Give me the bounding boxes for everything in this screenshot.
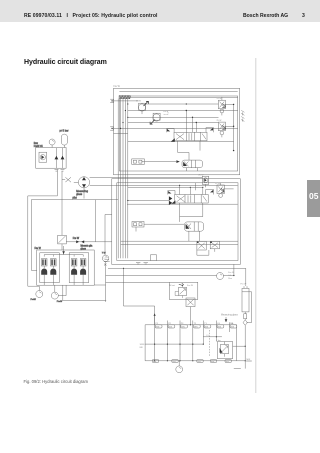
measuring rail left leg <box>140 325 146 361</box>
directional valve DV1 left cap <box>167 129 175 133</box>
svg-text:Rex: Rex <box>228 278 233 280</box>
svg-text:FreW 45: FreW 45 <box>34 145 44 148</box>
svg-text:pr 5 bar: pr 5 bar <box>60 129 69 133</box>
pilot marks DV2 <box>169 196 172 205</box>
port X2 <box>110 127 238 130</box>
test point T1b <box>203 321 211 345</box>
pilot valve PV1 <box>41 259 47 285</box>
pilot valve PV3 <box>71 259 77 285</box>
wire gallery riser to rails <box>123 268 155 325</box>
DV1 bottom stubs <box>178 141 200 153</box>
power unit enclosure <box>36 148 66 169</box>
svg-text:Messun gla: Messun gla <box>81 246 93 248</box>
pump M1 <box>39 152 47 162</box>
wire SV1 out <box>142 104 219 114</box>
svg-text:SWS: SWS <box>140 344 145 346</box>
pressure gauge G2 <box>31 286 43 301</box>
pilot supply arrow <box>62 246 65 255</box>
rail end tick <box>246 359 252 361</box>
relief valve RV4 <box>216 340 229 357</box>
wire M2 lower rail <box>90 184 112 186</box>
relief assembly enclosure <box>217 342 232 359</box>
wire tank return left <box>28 169 58 286</box>
shuttle valve SV1 <box>136 101 148 111</box>
supply arrow up <box>154 313 156 319</box>
svg-text:7 W: 7 W <box>102 253 107 255</box>
svg-text:M set: M set <box>170 284 176 287</box>
pressure gauge G4 <box>102 253 109 262</box>
filter bracket <box>247 292 252 323</box>
test point P1 <box>155 319 162 361</box>
svg-text:Fre W: Fre W <box>241 283 247 286</box>
wire aux drop <box>94 200 96 242</box>
filter assembly FL1 <box>241 283 250 312</box>
wire G4 down <box>105 262 107 302</box>
solenoid valve SO1 <box>197 241 209 255</box>
collector line B <box>106 275 234 277</box>
gallery line 2 <box>120 99 122 259</box>
gallery mid block2 <box>121 240 238 242</box>
gallery line 1 <box>117 99 119 259</box>
wire XQ drop <box>189 307 191 325</box>
svg-text:pilot: pilot <box>73 196 78 199</box>
wire TB1 to CV1 <box>144 160 179 163</box>
pressure gauge G5 <box>217 271 234 280</box>
wire pilot supply <box>31 196 118 199</box>
drop G5 <box>233 264 234 276</box>
cartridge valve CV2 <box>185 222 204 241</box>
test point LS <box>216 321 223 342</box>
test point T1a <box>193 321 200 361</box>
dashed drain link <box>208 330 210 356</box>
wire TB2 to CV2 <box>144 223 184 225</box>
pilot manifold <box>44 255 83 257</box>
DV1 top drops <box>186 110 197 133</box>
solenoid valve SO2 <box>210 241 219 251</box>
pilot housing right <box>69 253 89 283</box>
restrictor R1 <box>62 177 71 182</box>
svg-text:Fre W: Fre W <box>114 85 121 88</box>
gallery line 5 <box>127 99 129 259</box>
filter F1 <box>58 235 67 250</box>
svg-text:FreW: FreW <box>31 298 37 301</box>
pilot pump P2 <box>199 174 209 187</box>
svg-text:25 W: 25 W <box>136 101 141 103</box>
LS branch <box>203 335 222 337</box>
terminal box TB1 <box>132 159 145 164</box>
circulation pump M2 <box>78 177 89 188</box>
svg-text:Fre W: Fre W <box>228 271 234 274</box>
test point P3 <box>180 321 187 361</box>
test point P2 <box>167 321 174 361</box>
wire FL1 drop <box>234 325 245 368</box>
svg-text:Fre W: Fre W <box>187 284 194 287</box>
check valve V3 <box>243 319 247 326</box>
reducing valve RD1 <box>175 285 187 298</box>
tank T2 <box>136 262 148 264</box>
fitting bottom B4 <box>210 359 216 363</box>
directional valve DV2 body <box>127 195 238 205</box>
rail B block1 <box>128 116 219 118</box>
test point MA <box>229 322 236 332</box>
label measuring left <box>76 190 88 196</box>
drain pump M3 <box>176 361 183 373</box>
coupling C1 <box>66 237 112 243</box>
svg-text:glass: glass <box>76 193 83 196</box>
wire G4 riser <box>105 215 112 256</box>
directional valve DV2 right cap <box>206 190 214 195</box>
wire DV2 pilot left <box>127 200 169 201</box>
junction dots rails <box>154 324 246 361</box>
label messun <box>81 246 93 251</box>
wire M2 lower stub <box>74 182 84 198</box>
svg-text:Fre W: Fre W <box>35 247 42 250</box>
DV2 bottom stubs <box>180 203 203 222</box>
relief valve RV3 <box>215 183 234 198</box>
gallery line 4 <box>124 99 126 259</box>
page margin guide <box>255 58 257 393</box>
svg-text:MA: MA <box>230 322 234 325</box>
relief valve RVB <box>217 120 234 137</box>
pilot valve PV2 <box>50 259 56 285</box>
tank T1 <box>55 170 65 172</box>
svg-text:25 W: 25 W <box>217 98 222 100</box>
svg-text:25 W: 25 W <box>217 120 222 122</box>
drain mark D2 <box>241 117 244 122</box>
gallery end marks <box>104 257 110 265</box>
svg-text:MIN: MIN <box>247 359 251 361</box>
svg-text:FreW: FreW <box>57 300 63 303</box>
directional valve DV1 right cap <box>206 128 214 133</box>
rail C block1 <box>128 122 219 124</box>
check valve V1 <box>55 148 59 168</box>
label M set <box>170 283 194 287</box>
svg-text:a b: a b <box>104 257 108 259</box>
return arrow down <box>225 317 228 322</box>
control block 2 enclosure <box>112 179 241 265</box>
accumulator A1 <box>61 134 67 147</box>
fitting bottom B5 <box>225 359 231 363</box>
pilot control enclosure <box>35 247 95 285</box>
collector line A <box>108 267 246 269</box>
terminal box TB2 <box>132 222 144 232</box>
fitting bottom B2 <box>172 359 178 363</box>
drop line right block1 <box>233 104 234 152</box>
pressure gauge G3 <box>51 285 63 303</box>
relief valve RVA <box>217 97 234 116</box>
rail B block2 <box>128 186 203 188</box>
wire pilot return <box>63 285 106 300</box>
wire G3 link <box>58 285 66 295</box>
svg-text:Measuring glass: Measuring glass <box>221 314 239 317</box>
cartridge valve CV1 <box>182 160 203 171</box>
rail A block1 <box>128 110 238 112</box>
check valve V2 <box>61 148 65 168</box>
wire RV4 out <box>233 346 246 347</box>
port X1 <box>110 99 138 102</box>
control block 1 housing <box>119 96 237 171</box>
fitting bottom B3 <box>197 359 203 363</box>
measuring rail right leg <box>236 325 238 361</box>
svg-text:25 W: 25 W <box>199 174 204 176</box>
sensor SN1 <box>151 255 157 261</box>
coupling XQ <box>186 298 195 307</box>
drain mark D1 <box>241 110 244 115</box>
directional valve DV1 body <box>128 132 234 141</box>
shuttle valve SV2 <box>150 111 168 124</box>
fitting bottom B1 <box>152 359 158 363</box>
rail D short <box>114 133 128 135</box>
wire SA feed <box>106 281 170 283</box>
label measuring points <box>221 314 239 317</box>
svg-text:Rex: Rex <box>34 143 39 145</box>
svg-text:M8: M8 <box>140 347 144 349</box>
collector drop FL <box>245 268 247 286</box>
subassembly enclosure <box>169 282 198 299</box>
gallery line 3 <box>122 99 124 259</box>
measuring rail mid <box>145 343 203 345</box>
coupling band <box>119 96 131 99</box>
junction dots block1 <box>120 103 187 129</box>
rail A block2 <box>112 184 238 186</box>
sensor SN2 <box>244 312 247 319</box>
DV2 top drops <box>179 183 203 195</box>
wire CV1 riser <box>178 153 189 161</box>
wire box link <box>94 284 105 286</box>
measuring rail top <box>145 324 237 326</box>
svg-text:Fre W: Fre W <box>73 237 80 240</box>
wire box feed left <box>31 200 36 271</box>
wire M2 upper rail <box>90 176 203 178</box>
pressure gauge G1 <box>49 139 55 148</box>
gallery mid2 block2 <box>121 244 238 246</box>
label unit <box>34 143 44 148</box>
measuring rail bottom <box>145 360 245 362</box>
label pr 5 bar <box>60 129 69 133</box>
wire main drop <box>61 171 63 235</box>
pilot valve PV4 <box>80 259 86 285</box>
top rail block1 <box>119 90 237 92</box>
svg-text:25 W: 25 W <box>215 183 220 185</box>
control block 2 housing <box>117 183 238 261</box>
directional valve DV2 left cap <box>168 191 175 195</box>
control block 1 enclosure <box>114 85 240 175</box>
pilot housing left <box>40 253 60 283</box>
svg-text:X bar: X bar <box>216 340 221 342</box>
